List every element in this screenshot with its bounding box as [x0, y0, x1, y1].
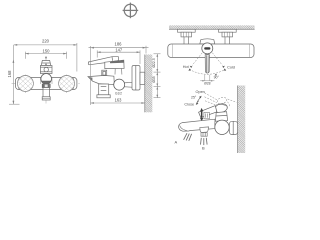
faucet bar (front, mounted) [168, 44, 254, 58]
small dim under lever [200, 75, 214, 81]
spout tip dark wedge [88, 77, 92, 81]
front view lower collar [42, 84, 50, 88]
svg-text:220: 220 [42, 39, 50, 44]
side view cartridge collar [105, 60, 124, 69]
svg-text:168: 168 [7, 70, 12, 78]
svg-text:186: 186 [115, 42, 123, 47]
front view handle knob [41, 61, 51, 66]
svg-text:90°: 90° [214, 75, 220, 79]
pipe to wall [125, 82, 133, 87]
svg-text:Open: Open [196, 90, 205, 94]
mount stems [184, 37, 230, 44]
svg-text:163: 163 [115, 98, 123, 103]
side view wall flange [132, 66, 145, 91]
handle dark slot [204, 47, 210, 49]
svg-text:Hot: Hot [183, 65, 190, 69]
open arrow [197, 97, 200, 102]
svg-text:B: B [202, 146, 205, 151]
front view main bar body [16, 77, 77, 89]
svg-text:A: A [175, 139, 178, 144]
central column edges through bar [40, 78, 52, 85]
svg-text:147: 147 [115, 47, 123, 52]
svg-text:Close: Close [184, 102, 194, 106]
side view body circle [114, 79, 125, 90]
svg-text:Ø22.5: Ø22.5 [152, 58, 156, 67]
svg-text:G1/2: G1/2 [115, 91, 122, 95]
dimension 186 [89, 46, 149, 54]
right eccentric mount [219, 29, 237, 37]
left inlet circle [17, 76, 33, 92]
side view neck [115, 69, 122, 75]
wall (side view) hatched [145, 55, 153, 113]
svg-text:Ø35: Ø35 [152, 76, 156, 83]
neck below lever [215, 112, 227, 122]
svg-text:25°: 25° [191, 96, 197, 100]
bar end lines [172, 44, 249, 57]
knob centering arrows [45, 57, 47, 59]
wall flange (bottom right) [229, 121, 237, 134]
lever stem down [205, 55, 209, 74]
lever underside dark band [110, 60, 124, 63]
body sphere [215, 120, 229, 134]
small square button [204, 112, 209, 119]
dashed open lever ghost [205, 93, 237, 107]
diverter outlet below body [200, 127, 209, 136]
front view centerlines [12, 56, 82, 104]
front view shower outlet [42, 88, 50, 100]
side view diverter knob [102, 70, 107, 76]
front view upper body [40, 66, 52, 74]
dimension 163 bottom [91, 46, 145, 105]
cartridge lower dark band [41, 81, 51, 84]
side view spout [88, 76, 114, 85]
cartridge dome [200, 39, 215, 44]
left eccentric mount [178, 29, 196, 37]
side view spout outlet [97, 84, 110, 98]
side view lever handle [88, 57, 118, 65]
rotation dashed arrows [189, 53, 225, 75]
dimension 147 [97, 50, 140, 64]
svg-text:Cold: Cold [227, 66, 235, 70]
registration mark icon top [123, 3, 139, 19]
dimension 168 vertical [9, 45, 20, 104]
dimension 220 [14, 43, 77, 72]
spray B [201, 138, 208, 145]
spray A [184, 133, 192, 141]
svg-text:150: 150 [43, 49, 51, 54]
right inlet circle [59, 76, 75, 92]
close arrow [197, 101, 199, 104]
wall (bottom right) hatched [238, 86, 246, 154]
handle knob circle [202, 43, 213, 54]
dimension 150 [25, 52, 66, 59]
svg-text:Ø28: Ø28 [204, 82, 211, 86]
right vertical dimension chain [154, 54, 161, 98]
front view cartridge circle [41, 74, 52, 85]
solid lever handle [199, 102, 229, 117]
spout (bottom right) [179, 119, 215, 131]
ceiling hatched band [169, 25, 255, 29]
small dark double arrow [200, 108, 203, 122]
